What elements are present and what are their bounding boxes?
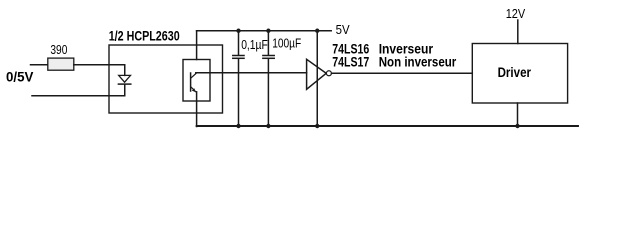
wire Q1 collector (Vcc pin) to 5V rail: [196, 31, 198, 60]
LED D1 cathode lead: [124, 84, 126, 95]
junction dot C2 top: [266, 29, 270, 33]
ground rail wire: [197, 125, 578, 127]
capacitor C2 plates: [263, 55, 274, 57]
transistor Q1 base bar: [190, 73, 192, 91]
svg-text:1/2 HCPL2630: 1/2 HCPL2630: [109, 28, 180, 43]
capacitor C1 plates: [233, 55, 244, 57]
wire 5V top rail: [197, 30, 332, 32]
junction dot C1 top: [236, 29, 240, 33]
op-amp U2 inverter gate triangle: [307, 59, 327, 89]
junction dot C1 ground: [236, 124, 240, 128]
wire Q1 emitter to ground rail: [196, 92, 198, 127]
transistor Q1 collector diagonal: [191, 73, 197, 78]
driver block box: [472, 44, 567, 104]
svg-text:Non inverseur: Non inverseur: [379, 54, 457, 69]
svg-text:5V: 5V: [336, 22, 350, 37]
op-amp U1 optocoupler 1/2 HCPL2630 outer box: [109, 45, 223, 113]
LED D1 anode lead: [124, 65, 126, 76]
wire input top segment: [31, 64, 48, 66]
svg-text:390: 390: [50, 42, 67, 57]
svg-text:0/5V: 0/5V: [6, 70, 33, 85]
wire 12V supply to driver: [517, 20, 519, 44]
wire inverter output to driver: [332, 72, 473, 74]
op-amp U2 output bubble: [326, 71, 331, 76]
svg-text:0,1µF: 0,1µF: [241, 37, 268, 52]
svg-text:Driver: Driver: [498, 65, 532, 80]
capacitor C2 100uF top lead: [267, 31, 269, 55]
LED D1 triangle: [119, 75, 131, 82]
transistor Q1 emitter diagonal with arrow: [191, 87, 196, 92]
LED D1 cathode bar: [118, 83, 130, 85]
capacitor C2 bottom lead: [267, 59, 269, 127]
junction dot gate ground: [315, 124, 319, 128]
svg-text:12V: 12V: [506, 6, 526, 21]
junction dot driver ground: [515, 124, 519, 128]
svg-text:74LS17: 74LS17: [332, 54, 369, 69]
wire resistor to LED anode: [74, 64, 125, 66]
resistor 390 body: [48, 58, 74, 70]
wire optocoupler output to inverter input: [196, 72, 307, 74]
svg-text:100µF: 100µF: [272, 36, 301, 51]
wire driver to ground rail: [517, 103, 519, 126]
capacitor C1 bottom lead: [238, 59, 240, 127]
transistor Q1 phototransistor inner box: [183, 60, 210, 102]
junction dot 5V gate feed: [315, 29, 319, 33]
junction dot C2 ground: [266, 124, 270, 128]
capacitor C1 0,1uF top lead: [238, 31, 240, 55]
wire inverter Vcc/GND vertical through gate: [316, 31, 318, 127]
wire input bottom segment (LED cathode return): [32, 95, 125, 97]
